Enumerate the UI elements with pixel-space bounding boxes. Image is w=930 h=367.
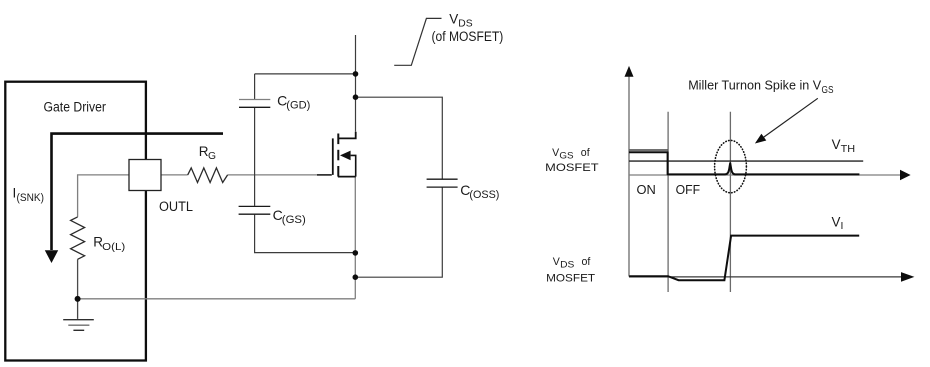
- svg-text:DS: DS: [560, 259, 574, 269]
- svg-text:TH: TH: [841, 144, 856, 155]
- svg-text:V: V: [832, 214, 841, 229]
- svg-text:(GD): (GD): [286, 100, 310, 112]
- svg-text:(SNK): (SNK): [17, 192, 45, 204]
- svg-text:I: I: [841, 221, 844, 232]
- svg-text:of: of: [582, 256, 591, 268]
- svg-text:G: G: [208, 151, 216, 162]
- svg-text:DS: DS: [458, 18, 472, 29]
- svg-text:OFF: OFF: [676, 183, 701, 197]
- svg-text:V: V: [449, 12, 458, 27]
- svg-text:OUTL: OUTL: [159, 199, 193, 214]
- svg-text:V: V: [832, 137, 841, 152]
- svg-text:(OSS): (OSS): [469, 189, 499, 201]
- svg-text:Gate Driver: Gate Driver: [44, 100, 107, 115]
- svg-text:MOSFET: MOSFET: [545, 162, 599, 174]
- svg-text:O(L): O(L): [102, 242, 125, 253]
- svg-text:Miller Turnon Spike in V: Miller Turnon Spike in V: [688, 79, 822, 93]
- svg-text:of: of: [581, 147, 590, 159]
- svg-text:ON: ON: [637, 183, 656, 197]
- svg-text:GS: GS: [559, 151, 573, 161]
- svg-text:MOSFET: MOSFET: [546, 272, 596, 284]
- svg-text:(of MOSFET): (of MOSFET): [432, 29, 504, 44]
- svg-text:GS: GS: [822, 85, 834, 96]
- svg-text:(GS): (GS): [282, 214, 306, 226]
